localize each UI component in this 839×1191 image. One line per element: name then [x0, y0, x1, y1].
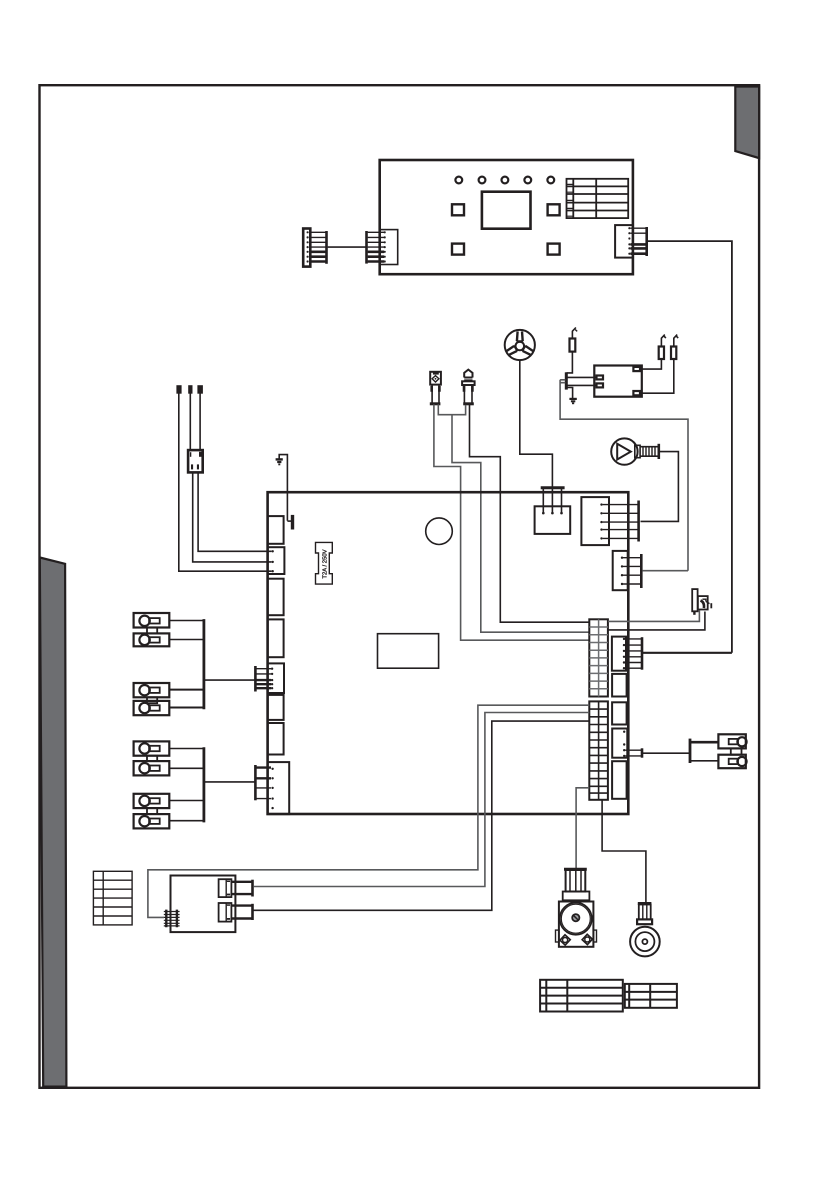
wire X4 to room stat plugs — [643, 752, 690, 754]
LCD display window — [482, 192, 531, 229]
ignition electrode — [570, 328, 578, 352]
pump — [611, 438, 660, 464]
button S4 — [548, 244, 560, 255]
terminal strip X3 (lower) — [589, 701, 608, 799]
LED D4 — [524, 177, 531, 184]
T-bar header above board — [541, 486, 565, 489]
button S1 — [452, 204, 464, 215]
6-pin connector top-right of board — [581, 497, 638, 545]
connector right edge blank 3 — [612, 702, 627, 724]
display board left connector (7-pin) — [367, 230, 398, 265]
wire bus2 to connector H — [204, 781, 255, 783]
supply plug — [188, 450, 203, 472]
board marking circle — [426, 518, 453, 545]
wire display cable — [328, 246, 366, 248]
right spade plug pair (room thermostat link) — [718, 734, 746, 768]
wire plugs1 to bus1 — [169, 621, 203, 640]
wire sensor link common — [438, 404, 589, 632]
wire remote common — [148, 705, 589, 917]
left edge connector A — [268, 516, 284, 544]
left edge connector H (5-pin corner) — [268, 762, 290, 814]
main control board outline — [268, 492, 629, 814]
left edge connector D — [268, 619, 284, 657]
flue sensor (round) — [630, 904, 660, 957]
remote ladder connector — [164, 910, 180, 928]
spade plug pair 4 — [134, 794, 170, 829]
sensing electrode 1 — [659, 335, 666, 359]
remote control box — [171, 876, 236, 933]
gray tab top-right — [735, 87, 759, 159]
legend table bottom 1 — [540, 980, 623, 1012]
svg-text:T2A / 250V: T2A / 250V — [321, 549, 328, 578]
bus bar 2 — [202, 747, 205, 822]
wire plugs2 to bus1 — [169, 690, 203, 708]
wire electrode1 to transformer — [640, 359, 661, 369]
wire fan to board — [520, 360, 553, 487]
wire flue sensor — [602, 800, 646, 903]
transformer terminal bottom-right — [633, 391, 640, 395]
left edge connector G — [268, 723, 284, 755]
wire plugs4 to bus2 — [169, 801, 203, 821]
wire remote 2 — [253, 721, 589, 910]
gas valve — [556, 869, 597, 947]
left edge connector C — [268, 579, 284, 616]
4-pin connector right edge — [613, 551, 642, 590]
spade plug pair 3 (return group) — [134, 741, 170, 775]
gray tab left — [40, 558, 67, 1087]
transformer terminal top-right — [633, 367, 640, 371]
wire X1 to display drop — [643, 652, 732, 654]
terminal strip X2 (upper) — [589, 619, 608, 696]
wire pump to board connector — [641, 452, 679, 522]
safety thermostat sensor — [430, 372, 441, 404]
wire plug to board pin 1 — [198, 472, 271, 551]
page border frame — [40, 85, 760, 1088]
wires strip X2 to pressure switch — [608, 611, 700, 622]
wire clamp to transformer pins — [567, 377, 596, 385]
NTC sensor — [462, 370, 475, 404]
remote legend table — [93, 871, 132, 925]
wire plug to board pin 2 — [193, 472, 272, 562]
LED D2 — [479, 177, 486, 184]
bus bar 1 — [202, 619, 205, 709]
supply cable cap 3 — [198, 386, 202, 393]
water pressure switch — [692, 589, 712, 615]
earth ground symbol — [276, 455, 288, 521]
wire cable3 into plug — [199, 393, 201, 450]
spade plug pair 2 — [134, 683, 170, 715]
wire display to X1 connector (long right drop) — [648, 241, 732, 653]
button S3 — [452, 244, 464, 255]
LED D1 — [455, 177, 462, 184]
left edge connector B (3-pin) — [268, 547, 285, 574]
wire plugs3 to bus2 — [169, 749, 203, 769]
spade plug pair 1 (flow group) — [134, 613, 170, 646]
wire gas valve supply — [576, 788, 589, 868]
comb connector E — [255, 666, 271, 692]
legend table on display board — [567, 179, 629, 218]
transformer terminal left-1 — [597, 376, 604, 380]
display board outline — [380, 160, 633, 274]
wire cable2 into plug — [189, 393, 191, 450]
display cable plug (7-pin) — [303, 229, 326, 267]
sensing electrode 2 — [671, 335, 678, 359]
legend table bottom 2 — [625, 984, 677, 1008]
wire remote 1 — [253, 713, 589, 887]
connector right edge blank 5 — [612, 761, 627, 799]
wire 4-pin to transformer supply — [642, 570, 688, 572]
supply cable cap 1 — [177, 386, 181, 393]
LED D5 — [547, 177, 554, 184]
remote connector 2 — [219, 903, 253, 922]
supply cable cap 2 — [189, 386, 192, 393]
ground at ignition clamp — [567, 388, 577, 404]
LED D3 — [502, 177, 509, 184]
left edge connector E (5-pin) — [268, 663, 284, 693]
left edge connector F — [268, 695, 284, 720]
display board right connector (6-pin) — [615, 225, 647, 258]
connector X4 (4-pin) — [612, 729, 642, 758]
wire transformer supply down and right — [560, 380, 688, 571]
ignition transformer — [594, 366, 642, 397]
fan — [505, 330, 535, 360]
remote connector 1 — [219, 879, 253, 897]
connector X1 (6-pin, right edge) — [612, 637, 642, 671]
wire NTC right to board strip — [470, 405, 590, 622]
clamp bar — [565, 372, 568, 389]
button S2 — [548, 204, 560, 215]
board inner rectangle (relay block) — [378, 634, 439, 669]
connector right edge blank 2 — [612, 674, 627, 697]
wire sensor1 left to board strip — [434, 404, 589, 640]
comb connector H — [255, 765, 271, 800]
wire cable1 to board pin — [179, 393, 272, 571]
fuse T2A/250V — [316, 542, 333, 584]
wire electrode to clamp — [567, 352, 573, 373]
wire supply to clamp — [560, 380, 565, 383]
wire bus1 to connector E — [204, 679, 255, 681]
earth link bar — [287, 520, 291, 522]
wire bus to plugs — [690, 741, 718, 744]
wire electrode2 to transformer — [640, 359, 674, 393]
3-pin connector under T-bar — [535, 489, 571, 534]
bus bar right plugs — [689, 739, 692, 763]
transformer terminal left-2 — [597, 383, 604, 387]
